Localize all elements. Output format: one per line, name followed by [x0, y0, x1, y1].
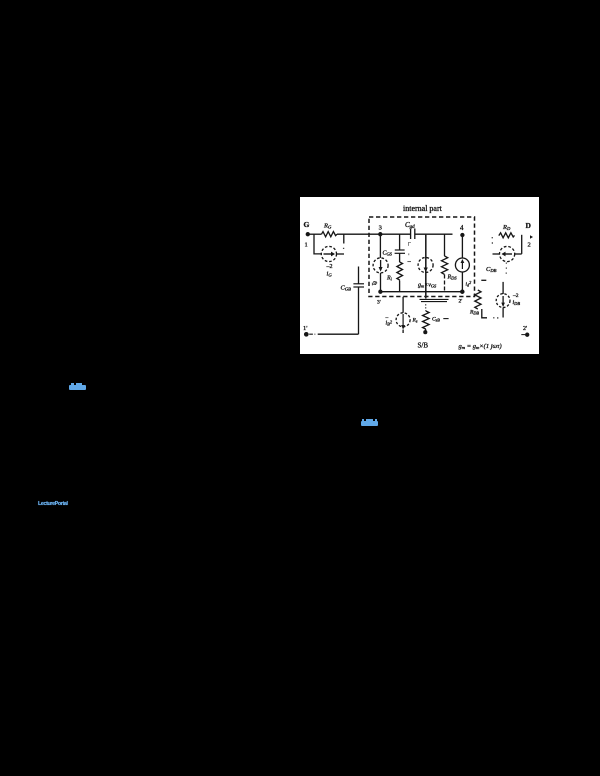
svg-text:2': 2'	[459, 299, 463, 305]
svg-text:internal part: internal part	[403, 204, 443, 213]
svg-text:–2: –2	[512, 293, 519, 299]
svg-text:Ri: Ri	[386, 275, 393, 281]
svg-text:gm = gm×(1 jωτ): gm = gm×(1 jωτ)	[459, 343, 502, 350]
svg-text:2': 2'	[523, 326, 527, 332]
svg-text:2: 2	[528, 242, 531, 249]
svg-text:G: G	[304, 220, 310, 229]
svg-text:RDS: RDS	[447, 275, 458, 281]
svg-text:–2: –2	[326, 264, 333, 270]
svg-text:D: D	[526, 221, 532, 230]
svg-text:Rs: Rs	[412, 318, 418, 324]
svg-text:iG: iG	[327, 271, 333, 278]
svg-text:RD: RD	[502, 224, 511, 231]
svg-text:Cgd: Cgd	[405, 221, 415, 230]
svg-text:RG: RG	[323, 223, 332, 230]
svg-text:4: 4	[460, 224, 464, 232]
svg-text:gm×vGS: gm×vGS	[418, 283, 437, 289]
svg-text:iDB: iDB	[513, 300, 521, 306]
svg-text:RDB: RDB	[469, 310, 479, 316]
svg-text:S/B: S/B	[418, 342, 429, 350]
svg-text:iB2: iB2	[386, 319, 393, 326]
svg-text:3: 3	[379, 225, 382, 232]
svg-text:i̅g: i̅g	[372, 281, 378, 287]
svg-text:3': 3'	[377, 300, 381, 306]
svg-text:CDB: CDB	[486, 266, 497, 273]
svg-text:1: 1	[305, 242, 308, 249]
svg-text:CsB: CsB	[432, 317, 440, 323]
svg-text:CGS: CGS	[383, 251, 393, 257]
svg-text:1': 1'	[303, 325, 307, 332]
svg-text:CGB: CGB	[341, 285, 352, 292]
svg-text:id2: id2	[466, 280, 472, 287]
